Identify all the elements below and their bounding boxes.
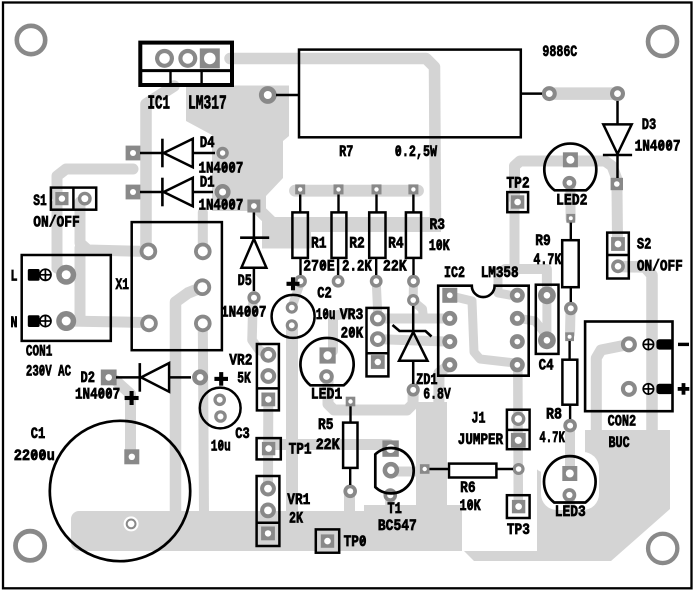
C3 pad minus <box>214 410 227 423</box>
transformer X1 outline <box>132 222 222 350</box>
R6 pad left <box>420 464 430 474</box>
LED1 outline <box>300 338 353 385</box>
label S2 <box>637 235 652 253</box>
wire C4 internal <box>542 297 551 338</box>
svg-text:C4: C4 <box>539 357 554 375</box>
label R9 <box>535 232 551 250</box>
VR2 pad1 <box>260 347 276 363</box>
D5 pad cathode <box>247 200 260 213</box>
label D1 <box>200 173 215 191</box>
R2 pad bottom <box>332 275 345 288</box>
label X1 <box>116 276 130 294</box>
S2 pad2 <box>611 259 625 273</box>
label S1 <box>33 192 47 210</box>
wire R5 stub to pour <box>344 491 355 516</box>
svg-text:LM358: LM358 <box>481 264 519 282</box>
label VR1 <box>287 491 310 509</box>
diode D4 <box>140 139 215 168</box>
resistor R3 outline <box>406 195 421 276</box>
wire VR2 TP1 VR1 <box>263 402 273 490</box>
VR1 pad3 <box>261 527 275 541</box>
label 1N4007 <box>199 196 244 214</box>
label C3 <box>235 425 250 443</box>
CON2 plus screw <box>643 384 653 394</box>
svg-text:C1: C1 <box>31 425 46 443</box>
label 2200u <box>14 447 55 465</box>
label CON2 <box>608 412 637 430</box>
svg-text:0.2,5W: 0.2,5W <box>395 143 438 161</box>
wire bottom ground pour left <box>71 505 462 551</box>
label 1N4007 <box>75 385 120 403</box>
VR3 pad3 <box>371 355 385 369</box>
CON2 minus terminal <box>656 339 673 349</box>
wire TP2 LED2 D3 net <box>515 161 617 200</box>
C1 pad minus <box>124 516 139 531</box>
svg-text:TP0: TP0 <box>344 533 367 551</box>
svg-text:2.2K: 2.2K <box>342 257 372 275</box>
TP1 pad <box>262 442 275 455</box>
svg-text:22K: 22K <box>316 436 340 454</box>
CON1 N pad <box>56 311 76 331</box>
label J1 <box>472 410 486 428</box>
label 270E <box>303 257 335 275</box>
wire R8 to LED3 over island <box>565 428 575 470</box>
wire R9 to R8 <box>565 310 576 334</box>
svg-text:S2: S2 <box>637 235 652 253</box>
S1 pad1 <box>55 192 68 205</box>
svg-text:1N4007: 1N4007 <box>635 137 681 155</box>
X1 pad1 <box>140 243 158 261</box>
CON2 minus marker <box>678 343 689 346</box>
wire VR3 to IC2 pin2 <box>378 314 449 324</box>
wire R3 to ZD1 <box>409 281 418 297</box>
label 10u <box>211 438 231 456</box>
LED3 pad anode <box>562 466 577 481</box>
svg-text:R1: R1 <box>311 235 327 253</box>
mounting hole bottom-right <box>648 534 677 563</box>
wire D5 pad diagonal <box>253 204 288 238</box>
label L <box>11 268 18 286</box>
R4 pad top <box>372 184 382 194</box>
wire copper traces group <box>57 59 670 562</box>
svg-text:VR3: VR3 <box>340 306 364 324</box>
R8 pad bottom <box>563 419 577 433</box>
svg-text:CON1: CON1 <box>26 343 52 361</box>
T1 pad emitter <box>384 488 398 502</box>
C3 plus marker <box>214 372 228 386</box>
label 1N4007 <box>221 304 267 322</box>
VR1 pad1 <box>260 481 276 497</box>
label 230V AC <box>26 363 71 381</box>
diode D1 <box>140 178 213 207</box>
wire T1 emitter stub <box>385 493 395 512</box>
D3 pad cathode <box>610 86 625 101</box>
svg-text:R3: R3 <box>430 216 446 234</box>
svg-text:VR2: VR2 <box>229 352 252 370</box>
wire IC2 pin4 down <box>439 366 449 465</box>
D2 pad cathode <box>192 369 208 385</box>
test point TP2 outline <box>507 192 528 212</box>
wire X1 pin4 down to pour <box>176 287 203 516</box>
test point TP3 outline <box>507 495 530 518</box>
LED3 pad cathode <box>563 488 577 502</box>
IC2 pad8 <box>510 288 525 303</box>
svg-text:T1: T1 <box>387 500 402 518</box>
LED1 pad anode <box>320 347 336 363</box>
CON1 L pad <box>56 265 76 285</box>
label R7 <box>339 143 353 161</box>
transistor T1 outline <box>375 448 413 493</box>
label 1N4007 <box>635 137 681 155</box>
resistor R2 outline <box>332 195 347 276</box>
svg-text:C3: C3 <box>235 425 250 443</box>
svg-text:R2: R2 <box>349 235 365 253</box>
wire ZD1 to IC2 pin2 elbow <box>414 302 424 318</box>
resistor R7 outline <box>276 50 542 138</box>
label TP3 <box>507 521 530 539</box>
svg-text:R7: R7 <box>339 143 353 161</box>
C2 pad plus <box>286 302 298 314</box>
wire pour IC1/D4/D1/R7 <box>186 86 289 212</box>
label R1 <box>311 235 327 253</box>
label T1 <box>387 500 402 518</box>
diode D3 <box>603 101 632 178</box>
capacitor C4 outline <box>536 285 559 354</box>
svg-text:1N4007: 1N4007 <box>199 196 244 214</box>
resistor R9 outline <box>562 223 579 302</box>
label TP2 <box>506 174 529 192</box>
IC2 pad5 <box>510 357 525 372</box>
jumper J1 outline <box>507 410 530 450</box>
C1 pad plus <box>124 449 139 464</box>
svg-text:LED2: LED2 <box>556 192 588 210</box>
svg-text:S1: S1 <box>33 192 47 210</box>
potentiometer VR1 outline <box>257 476 280 546</box>
IC1 pad1 <box>155 49 174 68</box>
label IC1 <box>148 92 171 114</box>
svg-text:IC2: IC2 <box>444 264 465 282</box>
C4 pad plus <box>538 286 556 304</box>
wire IC2 pin8 elbow <box>498 271 515 296</box>
svg-text:VR1: VR1 <box>287 491 310 509</box>
label JUMPER <box>458 431 504 449</box>
R9 pad bottom <box>564 302 578 316</box>
wire TP2 down to IC2 <box>510 204 520 272</box>
R7 pad right <box>542 86 557 101</box>
capacitor C3 outline <box>200 388 241 429</box>
label 20K <box>341 324 364 342</box>
svg-text:TP2: TP2 <box>506 174 529 192</box>
IC2 pad4 <box>442 357 457 372</box>
svg-text:BC547: BC547 <box>378 517 417 535</box>
label 1N4007 <box>199 160 244 178</box>
R3 pad top <box>408 184 418 194</box>
svg-text:L: L <box>11 268 18 286</box>
LED2 pad cathode <box>563 176 577 190</box>
svg-text:LM317: LM317 <box>188 92 227 114</box>
resistor R5 outline <box>343 406 357 485</box>
C4 pad minus <box>538 331 556 349</box>
label VR3 <box>340 306 364 324</box>
CON2 pad minus <box>621 336 637 352</box>
resistor R6 outline <box>430 464 514 478</box>
label CON1 <box>26 343 52 361</box>
D2 pad anode <box>101 370 117 386</box>
VR1 pad2 <box>260 503 276 519</box>
IC2 pad2 <box>442 311 457 326</box>
T1 pad collector <box>382 440 398 456</box>
X1 pad3 <box>140 315 158 333</box>
svg-text:X1: X1 <box>116 276 130 294</box>
svg-text:R5: R5 <box>318 416 334 434</box>
label TP1 <box>289 440 312 458</box>
switch S2 outline <box>607 233 629 279</box>
IC2 pad3 <box>442 334 457 349</box>
R9 pad top <box>566 214 575 223</box>
label R6 <box>460 479 476 497</box>
R4 pad bottom <box>370 275 383 288</box>
wire resistor top band <box>295 185 418 197</box>
wire band2 right <box>305 217 441 232</box>
svg-text:LED3: LED3 <box>555 503 586 521</box>
switch S1 outline <box>51 188 96 210</box>
wire LED1 to ZD1 <box>328 379 413 410</box>
T1 pad base <box>383 462 400 479</box>
svg-text:4.7K: 4.7K <box>533 251 561 269</box>
svg-text:J1: J1 <box>472 410 486 428</box>
wire D5 to VR2 <box>252 300 268 355</box>
J1 pad1 <box>511 412 525 426</box>
wire D2 pad to C1 plus <box>115 380 131 452</box>
op-amp IC2 outline <box>438 286 529 376</box>
IC1 pad3 <box>200 48 220 68</box>
label D2 <box>81 369 96 387</box>
TP3 pad <box>512 500 525 513</box>
label ON/OFF <box>33 214 80 232</box>
LED3 outline <box>544 456 596 502</box>
wire CON1 N to X1 <box>66 321 146 323</box>
svg-text:BUC: BUC <box>609 434 630 452</box>
label ZD1 <box>416 371 438 389</box>
VR3 pad2 <box>370 331 386 347</box>
svg-text:R9: R9 <box>535 232 551 250</box>
wire S1 up to D4 pad <box>57 169 133 196</box>
label 10K <box>460 497 481 515</box>
label D3 <box>642 116 657 134</box>
R5 pad bottom <box>343 485 357 499</box>
wire C4 top feed <box>505 269 547 295</box>
wire IC1 pin1 to D4/D1/X1 <box>146 86 174 251</box>
label D5 <box>238 272 252 290</box>
R5 pad top <box>346 397 356 407</box>
R1 pad top <box>295 184 305 194</box>
connector CON1 outline <box>22 255 111 341</box>
CON2 minus screw <box>643 339 653 349</box>
label LED2 <box>556 192 588 210</box>
TP2 pad <box>511 195 524 208</box>
svg-text:LED1: LED1 <box>311 386 343 404</box>
label R8 <box>546 406 562 424</box>
zener diode ZD1 <box>393 306 432 384</box>
VR2 pad3 <box>261 393 275 407</box>
svg-text:TP1: TP1 <box>289 440 312 458</box>
LED2 outline <box>544 144 596 191</box>
test point TP1 outline <box>257 438 281 459</box>
capacitor C2 outline <box>272 295 315 338</box>
svg-text:D5: D5 <box>238 272 252 290</box>
svg-text:R4: R4 <box>388 235 404 253</box>
R8 label island <box>535 420 585 472</box>
wire R7 to D3 <box>552 87 614 100</box>
regulator IC1 outline <box>140 43 232 85</box>
wire IC2 pin7 to C4 <box>519 319 546 339</box>
wire R1 to C2 <box>293 282 301 304</box>
J1 pad2 <box>511 433 526 448</box>
wire X1 pin2 stub <box>198 212 208 248</box>
CON2 plus terminal <box>656 384 673 394</box>
wire band2 left <box>262 217 311 249</box>
ZD1 pad anode <box>407 383 420 396</box>
R1 pad bottom <box>294 275 307 288</box>
label 22K <box>316 436 340 454</box>
diode D2 <box>116 363 191 392</box>
wire R8 to LED3 <box>565 428 575 470</box>
mounting hole bottom-left <box>16 531 45 560</box>
wire R4 to VR3 <box>376 281 378 315</box>
X1 pad5 <box>194 315 212 333</box>
svg-text:D3: D3 <box>642 116 657 134</box>
C3 pad plus <box>213 394 226 407</box>
IC2 pad1 <box>442 288 457 303</box>
resistor R4 outline <box>369 195 385 276</box>
IC2 pad7 <box>510 311 525 326</box>
wire LED1 anode up <box>333 313 348 351</box>
svg-text:6.8V: 6.8V <box>423 385 451 403</box>
R2 pad top <box>334 184 344 194</box>
wire IC2 pin1 to pin5 <box>451 296 515 363</box>
svg-text:2K: 2K <box>289 510 303 528</box>
CON2 plus marker <box>678 383 690 395</box>
label 0.2,5W <box>395 143 438 161</box>
label 10u <box>316 306 336 324</box>
label 10K <box>429 237 450 255</box>
label TP0 <box>344 533 367 551</box>
label R2 <box>349 235 365 253</box>
svg-text:N: N <box>11 314 18 332</box>
svg-text:TP3: TP3 <box>507 521 530 539</box>
svg-text:4.7K: 4.7K <box>539 429 565 447</box>
label IC2 <box>444 264 465 282</box>
svg-text:D4: D4 <box>200 134 215 152</box>
R6 pad right <box>513 463 525 475</box>
svg-text:ON/OFF: ON/OFF <box>637 257 683 275</box>
wire LED3 to pour over island <box>565 494 575 534</box>
wire IC2 pin5 via J1 to TP3 <box>513 366 523 503</box>
label LED1 <box>311 386 343 404</box>
connector CON2 outline <box>585 322 672 412</box>
label BC547 <box>378 517 417 535</box>
svg-text:22K: 22K <box>383 257 407 275</box>
wire S1 left to CON1 L <box>57 204 64 272</box>
label N <box>11 314 18 332</box>
mounting hole top-left <box>17 26 45 54</box>
label 6.8V <box>423 385 451 403</box>
TP0 pad <box>321 534 334 547</box>
VR3 pad1 <box>370 311 386 327</box>
label LED3 <box>555 503 586 521</box>
svg-text:JUMPER: JUMPER <box>458 431 504 449</box>
wire LED2 to R9 <box>565 182 575 219</box>
wire CON2 minus down <box>596 345 626 432</box>
X1 pad4 <box>194 278 212 296</box>
CON1 L terminal <box>28 269 40 281</box>
label 2.2K <box>342 257 372 275</box>
D3 pad anode <box>611 178 623 190</box>
CON1 N terminal <box>28 315 40 327</box>
S1 pad2 <box>78 192 92 206</box>
R3 pad bottom <box>407 275 420 288</box>
D5 pad anode <box>247 291 260 304</box>
X1 pad2 <box>194 243 212 261</box>
VR2 pad2 <box>260 368 276 384</box>
D4 pad cathode <box>216 147 228 159</box>
C1 plus marker <box>125 391 139 405</box>
CON1 L screw <box>40 269 51 280</box>
svg-text:R6: R6 <box>460 479 476 497</box>
potentiometer VR2 outline <box>257 344 279 410</box>
capacitor C1 outline <box>50 421 190 561</box>
label 5K <box>237 369 251 387</box>
wire VR3 to IC2 pin3 <box>378 339 449 342</box>
wire C2 minus down to pour <box>286 326 298 516</box>
wire TP1 to T1 base <box>273 439 389 450</box>
svg-text:R8: R8 <box>546 406 562 424</box>
D1 pad cathode <box>215 184 231 200</box>
svg-text:9886C: 9886C <box>542 43 577 61</box>
svg-text:1N4007: 1N4007 <box>75 385 120 403</box>
svg-text:270E: 270E <box>303 257 335 275</box>
mounting hole top-right <box>648 27 677 56</box>
svg-text:230V AC: 230V AC <box>26 363 71 381</box>
test point TP0 outline <box>316 529 339 552</box>
label VR2 <box>229 352 252 370</box>
label LM358 <box>481 264 519 282</box>
wire S1 right down to N net <box>75 248 86 318</box>
S2 pad1 <box>611 237 625 251</box>
diode D5 <box>240 213 269 292</box>
label LM317 <box>188 92 227 114</box>
R8 pad top <box>565 332 574 341</box>
label R3 <box>430 216 446 234</box>
label 4.7K <box>533 251 561 269</box>
resistor R1 outline <box>292 195 308 276</box>
svg-text:5K: 5K <box>237 369 251 387</box>
label C1 <box>31 425 46 443</box>
wire LED3 cathode to pour <box>565 496 575 532</box>
label D4 <box>200 134 215 152</box>
label 9886C <box>542 43 577 61</box>
svg-text:1N4007: 1N4007 <box>221 304 267 322</box>
svg-text:C2: C2 <box>317 285 332 303</box>
label R4 <box>388 235 404 253</box>
wire T1 to R6 <box>392 467 425 477</box>
ZD1 pad cathode <box>407 294 419 306</box>
label R5 <box>318 416 334 434</box>
wire D3 pad to S2 <box>612 188 624 240</box>
label 4.7K <box>539 429 565 447</box>
label C4 <box>539 357 554 375</box>
label ON/OFF <box>637 257 683 275</box>
